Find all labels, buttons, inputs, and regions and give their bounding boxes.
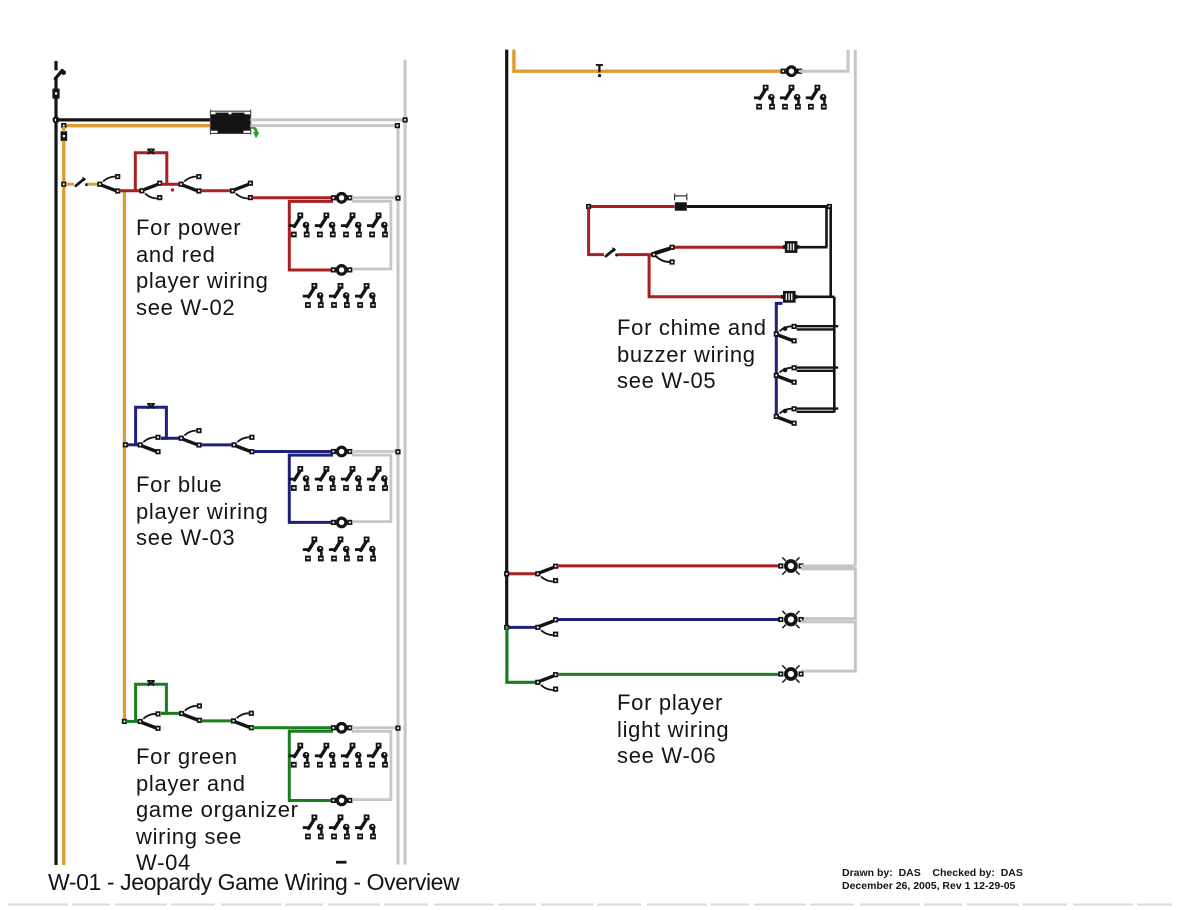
wire: black ladder vertical lower [833, 297, 836, 413]
wire: green stub from orange rail [126, 720, 140, 723]
wire: outer gray return rail vertical [404, 60, 407, 865]
wire: gray U loop P3 to P4 [352, 455, 391, 521]
transformer T1 [210, 110, 250, 135]
connector pairs row 2 blue section [303, 537, 324, 562]
blue box loop with switch [136, 407, 167, 445]
wire: gray from P1 to inner rail [352, 196, 397, 199]
wire: red toggle B to toggle C [162, 183, 180, 186]
wire: red from toggle A to box corner [120, 189, 141, 192]
plug P4 blue row [331, 518, 353, 527]
switch on green box top [147, 681, 155, 686]
wire: green toggle B to toggle C [201, 719, 232, 722]
connector pairs row 2 red section [303, 283, 324, 308]
wire: orange dash after open switch [88, 183, 98, 186]
wire: black stub chime 1 to ladder [797, 246, 827, 249]
wire: blue buzzer bus [776, 303, 782, 416]
wire: black pair buzzer toggle 1 [797, 326, 839, 329]
label: player light section note [617, 690, 729, 770]
wire: red loop down to plug P2 [289, 201, 333, 270]
wire: orange rail vertical left [62, 127, 65, 865]
wire: red to chime 1 [675, 246, 784, 249]
toggle switch blue A [138, 435, 161, 455]
toggle switch green A [138, 711, 161, 731]
stray dash mark bottom center [336, 861, 347, 864]
label: blue section note [136, 472, 269, 552]
wire: blue toggle A to toggle B [161, 437, 180, 440]
connector block J1 on left black rail [52, 89, 59, 99]
wire: gray feeder from transformer to outer gray rail [250, 118, 405, 121]
chime CH1 [783, 241, 799, 253]
lamp L2 blue player [778, 611, 803, 628]
node: player light red junction [504, 571, 509, 576]
wire: green toggle A to toggle B [161, 712, 181, 715]
connector pairs row 1 red section [289, 213, 310, 238]
open switch chime row [606, 247, 618, 257]
wire: red down to chime 2 [649, 256, 781, 297]
wire: black pair buzzer toggle 2 [797, 368, 839, 371]
node: orange branch junction red row [61, 182, 66, 187]
lamp L3 green player [778, 665, 803, 682]
open switch red row [76, 177, 88, 187]
connector pairs row 1 blue section [289, 466, 310, 491]
label: chime section note [617, 315, 767, 395]
toggle switch red C [179, 174, 202, 194]
label: red section note [136, 215, 269, 321]
toggle switch player blue [535, 617, 558, 637]
wire: red stub to toggle [509, 572, 537, 575]
red box loop with switch [135, 153, 167, 191]
title block: drawn by info [842, 867, 1023, 893]
toggle switch buzzer 1 [774, 324, 797, 344]
node: ladder top junction [827, 204, 832, 209]
connector pairs row 2 green section [303, 815, 324, 840]
node: chime feed junction [586, 204, 591, 209]
bottom gray separator line [8, 904, 1172, 906]
node: inner rail junction green row [395, 726, 400, 731]
connector pairs top right row [754, 85, 775, 110]
toggle switch blue C [232, 435, 255, 455]
toggle switch red A [97, 174, 120, 194]
wire: black ladder vertical to chime 2 [829, 207, 832, 298]
wire: orange stub to open switch [66, 183, 74, 186]
toggle switch player red [535, 564, 558, 584]
wire: gray from L1 to right rail [801, 565, 855, 568]
switch S1 on left black rail [55, 70, 66, 79]
label: green section note [136, 744, 299, 877]
wire: green loop down to plug P6 [289, 731, 333, 800]
wire: right black rail vertical [505, 50, 508, 628]
toggle switch buzzer 2 [774, 365, 797, 385]
connector block J2 on orange rail [61, 131, 68, 141]
node: orange corner junction [61, 123, 66, 128]
toggle switch red D [230, 181, 253, 201]
wire: green toggle C to plug P5 [252, 726, 333, 729]
wire: gray from P3 to inner rail [352, 450, 397, 453]
wire: gray feeder from transformer to inner gray rail [250, 124, 398, 127]
title: drawing name [48, 869, 459, 896]
switch on blue box top [147, 404, 155, 409]
node: outer rail top junction [403, 117, 408, 122]
wire: black pair buzzer toggle 3 [797, 409, 839, 412]
toggle switch buzzer 3 [774, 406, 797, 426]
wire: top orange feeder to transformer [64, 124, 211, 127]
wire: top black feeder to transformer [56, 118, 211, 121]
node: inner rail junction red row [395, 196, 400, 201]
wire: green to lamp L3 [558, 673, 781, 676]
wire: black ladder vertical to chime 1 [825, 207, 828, 248]
plug P5 green row [331, 724, 353, 733]
wire: gray U loop P5 to P6 [352, 731, 391, 799]
switch symbol on orange feeder [596, 65, 603, 78]
wire: red toggle D to power plug P1 [252, 196, 333, 199]
toggle switch blue B [179, 428, 202, 448]
wire: gray U loop P1 to P2 [352, 201, 391, 269]
node: inner rail top junction [395, 123, 400, 128]
toggle switch red B [139, 181, 162, 201]
toggle switch green C [231, 711, 254, 731]
node: player light blue junction [504, 625, 509, 630]
wire: red to selector switch [618, 253, 653, 256]
node: inner rail junction blue row [395, 449, 400, 454]
wire: gray from P7 hook up [800, 50, 848, 71]
chime CH2 [781, 291, 797, 303]
toggle switch green B [179, 703, 202, 723]
plug P7 orange row [781, 67, 803, 76]
node: junction of black rail and top black feeder [53, 116, 60, 123]
wire: gray U loop L1 to L2 [801, 569, 855, 619]
green continuation arrow below transformer [251, 127, 260, 138]
wire: black from fuse to right ladder [687, 205, 830, 208]
wire: red chime feed to fuse [591, 205, 675, 208]
selector toggle switch chime [651, 245, 674, 265]
wire: orange feeder top right [514, 50, 782, 72]
plug P1 red row [331, 194, 353, 203]
wire: gray from P5 to inner rail [352, 726, 397, 729]
wire: blue stub from orange rail [127, 443, 140, 446]
switch on red box top [147, 149, 155, 154]
connector pairs row 1 green section [289, 743, 310, 768]
wire: red down and to open switch [589, 207, 604, 255]
wire: left black power rail vertical [54, 61, 57, 865]
wire: gray U loop L2 to L3 [801, 622, 855, 671]
node: orange branch junction blue row [123, 442, 128, 447]
plug P6 green row [331, 796, 353, 805]
wire: red to lamp L1 [558, 564, 781, 567]
wire: red toggle C to toggle D [201, 189, 231, 192]
wire: blue to lamp L2 [558, 618, 781, 621]
plug P2 red row [331, 266, 353, 275]
fuse F1 [675, 194, 687, 211]
wire: inner gray return rail vertical [397, 126, 400, 865]
lamp L1 red player [778, 557, 803, 574]
wire: long gray rail right side [854, 50, 857, 566]
wire: black stub chime 2 to ladder [796, 295, 835, 298]
wire: orange rail vertical mid [123, 191, 126, 722]
green box loop with switch [136, 684, 167, 721]
wire: blue toggle C to plug P3 [253, 450, 334, 453]
wire: blue toggle B to toggle C [201, 443, 233, 446]
plug P3 blue row [331, 447, 353, 456]
wire: blue stub to toggle [509, 626, 537, 629]
wire: blue loop down to plug P4 [289, 455, 333, 522]
stray red dot [171, 188, 174, 191]
toggle switch player green [535, 672, 558, 692]
node: orange rail bottom junction green row [122, 719, 127, 724]
wire: green rail down to toggle [507, 627, 537, 682]
